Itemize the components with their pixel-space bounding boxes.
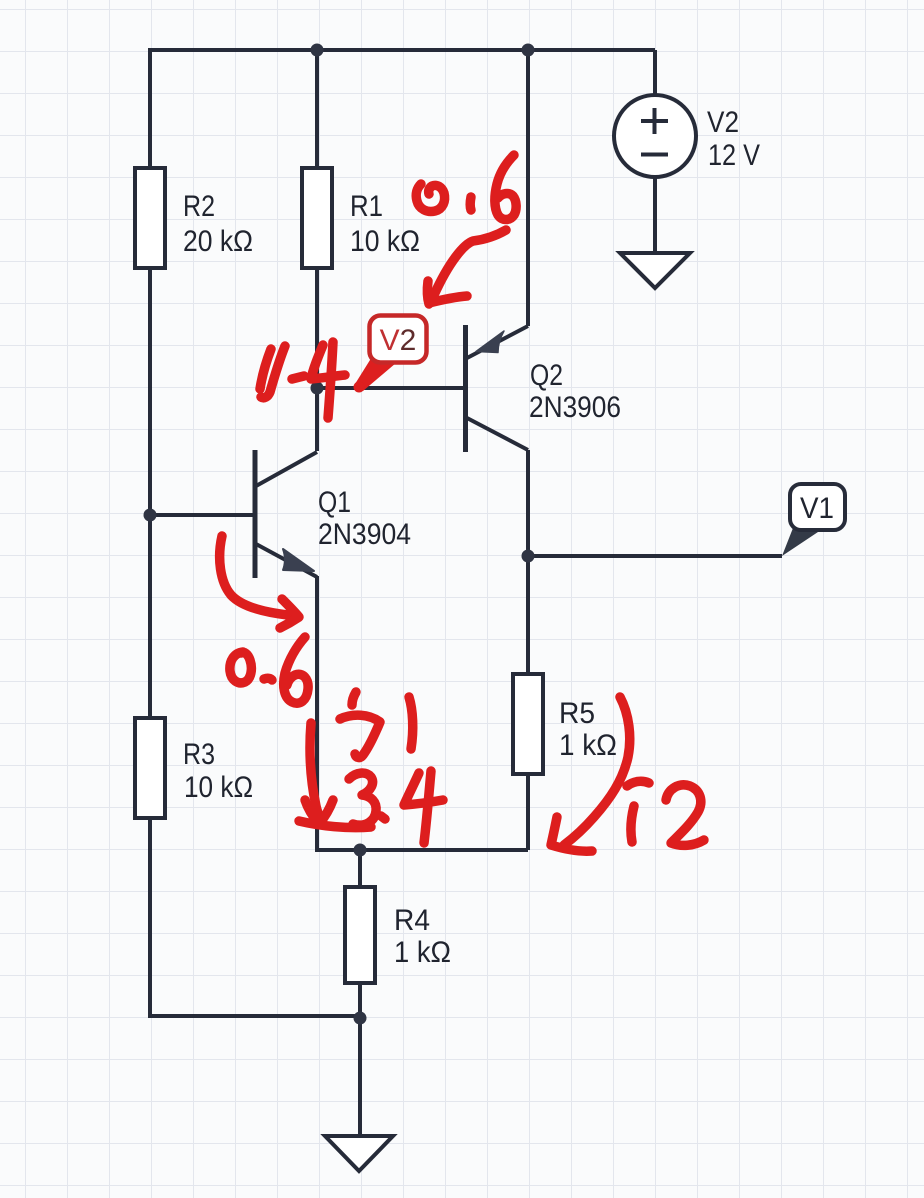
wire R1 bottom to node [315,268,319,388]
svg-text:V1: V1 [800,492,834,525]
svg-text:1 kΩ: 1 kΩ [394,936,451,969]
red text 0.6 lower: digit 0 [230,652,252,683]
node R4 bottom [354,1012,367,1025]
red annotations [220,155,704,851]
red text i2: digit 2 [666,785,704,846]
wire Q1 collector vertical [315,388,319,451]
resistor R5 [513,674,617,774]
svg-text:R2: R2 [183,190,215,223]
red text 0.6 lower: dot [264,678,272,680]
resistor R4 [345,887,451,983]
svg-text:V2: V2 [707,106,739,139]
wire R4 top [358,850,362,887]
svg-text:R3: R3 [183,738,215,771]
red text 3.4: digit 3 [349,773,376,825]
red text 1.4: digit 4 [311,342,345,418]
svg-text:R1: R1 [350,190,383,223]
wire left rail R2 to R3 [148,268,152,718]
svg-text:10 kΩ: 10 kΩ [184,771,253,804]
svg-text:12 V: 12 V [708,139,760,172]
wire left rail upper [148,48,152,168]
transistor Q1 [255,450,411,578]
svg-text:V2: V2 [380,324,417,357]
node Q2 base [311,382,324,395]
ground (bottom) [325,1136,393,1171]
red curved arrow below Q1 shaft [220,536,288,615]
resistor R3 [135,718,253,818]
red text i2: i dash [627,781,649,786]
red down arrow foot swipe [299,821,371,828]
wire V2 source bottom [653,177,657,253]
red text 1.4: digit 1 strokes [260,349,271,389]
red text 0.6 top: dot [466,197,476,210]
red text 0.6 lower: digit 6 [284,637,308,703]
red text 1.4: period [292,376,304,379]
svg-text:2N3904: 2N3904 [318,518,411,551]
svg-text:2N3906: 2N3906 [529,391,621,424]
wire bottom left horizontal [150,1014,360,1018]
wire node to R5 [526,556,530,674]
wire R4 bottom [358,983,362,1018]
wire R5 bottom [526,774,530,850]
wire bottom mid horizontal [315,848,528,852]
wire Q1 base [150,513,255,517]
node R4 top [354,844,367,857]
red text 3.4: period [381,816,385,819]
red text 3.4: digit 4 [404,771,443,843]
red text 0.6 top: digit 6 [495,155,516,220]
wire left rail R3 to bottom [148,818,152,1018]
node top-right [522,44,535,57]
red swoosh arrow head [551,817,592,851]
red curved arrow below Q1 head [280,599,299,628]
red down arrow shaft [310,723,321,821]
svg-text:1 kΩ: 1 kΩ [559,729,617,762]
node top-mid [311,44,324,57]
wire Q1 emitter vertical [315,576,319,850]
svg-text:Q2: Q2 [530,359,563,392]
wire node to Q2 base [317,386,465,390]
wire to bottom ground [358,1018,362,1136]
svg-text:R4: R4 [394,904,430,937]
red text i2: i body [631,806,634,842]
red text i1: i tick [352,692,356,705]
red text i1: digit 1 [409,697,413,749]
red arrow top head [427,281,467,304]
voltage source V2 [614,95,760,177]
resistor R2 [135,168,253,268]
wire V2 source top [653,50,657,96]
wire Q2 collector vertical [526,450,530,556]
red text i1: i body [340,715,380,757]
red down arrow head [305,800,333,824]
ground (V2 source) [620,253,690,288]
svg-text:Q1: Q1 [318,486,351,519]
svg-text:10 kΩ: 10 kΩ [350,225,420,258]
node V1 label [782,484,845,556]
red swoosh arrow shaft [564,697,630,845]
node Q1 base [144,509,157,522]
red arrow top shaft [434,230,506,295]
svg-text:R5: R5 [559,697,595,730]
node V2 red label [354,316,427,393]
wire V1 horizontal [528,554,782,558]
resistor R1 [302,168,420,268]
svg-text:20 kΩ: 20 kΩ [183,225,253,258]
wire top rail [150,48,655,52]
transistor Q2 [466,325,622,452]
node V1 [522,550,535,563]
red text 0.6 top: digit 0 [416,184,444,212]
wire Q2 emitter vertical [526,50,530,326]
wire mid rail upper (R1) [315,50,319,168]
